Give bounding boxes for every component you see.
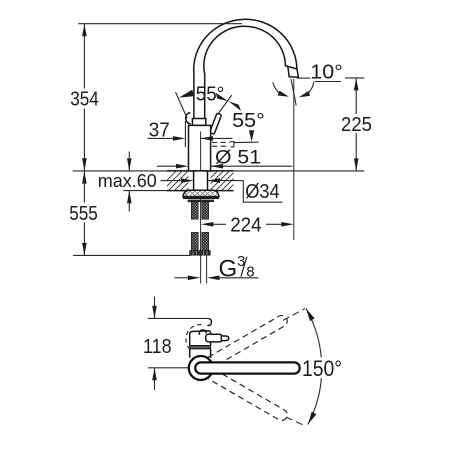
spout bar (top view) (195, 362, 300, 373)
extension line 37 (184, 121, 186, 147)
handle swivel dashed arc (186, 325, 202, 350)
G3/8 arrows (175, 277, 189, 279)
countertop hatching left block (157, 171, 205, 190)
svg-text:150°: 150° (302, 356, 342, 381)
arc arrowhead left (179, 90, 194, 98)
top extension line (spout top) (78, 23, 242, 25)
svg-text:Ø 51: Ø 51 (215, 147, 261, 169)
lever tip hook (top view) (207, 319, 211, 326)
hose connectors (190, 251, 210, 256)
centerline (200, 132, 202, 284)
lever socket detail (199, 330, 206, 335)
svg-text:8: 8 (246, 263, 254, 280)
118 top extension line (148, 317, 209, 319)
threaded shank (194, 171, 208, 191)
lever handle (210, 113, 222, 134)
collar band (190, 346, 211, 349)
dimension 225 (355, 78, 357, 114)
svg-text:G: G (219, 255, 238, 282)
svg-text:55°: 55° (232, 109, 265, 132)
threaded studs upper (191, 202, 198, 219)
cartridge cap (192, 119, 205, 126)
svg-text:555: 555 (69, 202, 98, 225)
arc arrowhead right (bowtie) (216, 93, 229, 102)
deck section edges (167, 170, 234, 172)
spout position dashed upper (208, 314, 289, 367)
hidden outlet dashed lines (212, 142, 230, 146)
faucet body (189, 125, 211, 170)
10 deg underline (315, 81, 341, 83)
lever front tip hook (186, 113, 191, 124)
svg-text:224: 224 (230, 214, 262, 237)
stream line vertical (293, 79, 295, 240)
lever axis line left (176, 92, 188, 118)
cap outline (top view) (190, 331, 211, 346)
dimension line max.60 (128, 152, 130, 171)
spout outer arc (194, 19, 297, 74)
spout riser tube (193, 74, 195, 119)
svg-text:max.60: max.60 (98, 170, 157, 191)
118 bottom extension line (148, 367, 191, 369)
svg-text:354: 354 (70, 88, 99, 111)
svg-text:55°: 55° (196, 83, 225, 106)
deck top line (73, 170, 365, 172)
dimension 34 (161, 180, 182, 182)
dimension 51 (157, 165, 176, 167)
deck bottom extension line (123, 190, 167, 192)
escutcheon circle (189, 356, 213, 380)
hose end line (555 reference) (73, 254, 191, 256)
dimension 118 (154, 297, 156, 319)
swivel arc 150 (306, 308, 322, 424)
body sides (top view) (189, 349, 191, 358)
tip angle arc right (leader from 10 deg) (308, 82, 314, 94)
label 150 bg (301, 358, 346, 379)
svg-text:10°: 10° (310, 60, 343, 83)
svg-text:225: 225 (341, 113, 372, 136)
dashed extension upper (283, 309, 305, 321)
225 top extension line (345, 77, 364, 79)
swivel arc arrowheads (306, 308, 315, 321)
svg-text:37: 37 (149, 119, 170, 142)
svg-text:Ø34: Ø34 (245, 181, 280, 203)
svg-text:118: 118 (143, 335, 172, 358)
lever axis line right (218, 95, 232, 114)
label 55 deg lower leader (235, 141, 259, 144)
countertop hatching right block (192, 171, 264, 190)
spout aerator tip (288, 66, 299, 77)
tip angle arc left (273, 82, 280, 93)
flexible hoses lower (191, 232, 198, 250)
dimension line 354/555 (83, 24, 85, 89)
mounting flange (183, 190, 219, 196)
10 deg tip line (297, 77, 311, 79)
G3/8 extension line (206, 255, 208, 283)
mounting nut (188, 200, 214, 203)
dashed extension lower (286, 417, 304, 425)
lever nub (top view) (206, 334, 222, 342)
stream line tilted (291, 79, 296, 106)
spout inner arc (204, 26, 288, 74)
spout position dashed lower (208, 369, 289, 422)
dimension 37 (148, 137, 173, 139)
dimension 224 (201, 222, 214, 227)
